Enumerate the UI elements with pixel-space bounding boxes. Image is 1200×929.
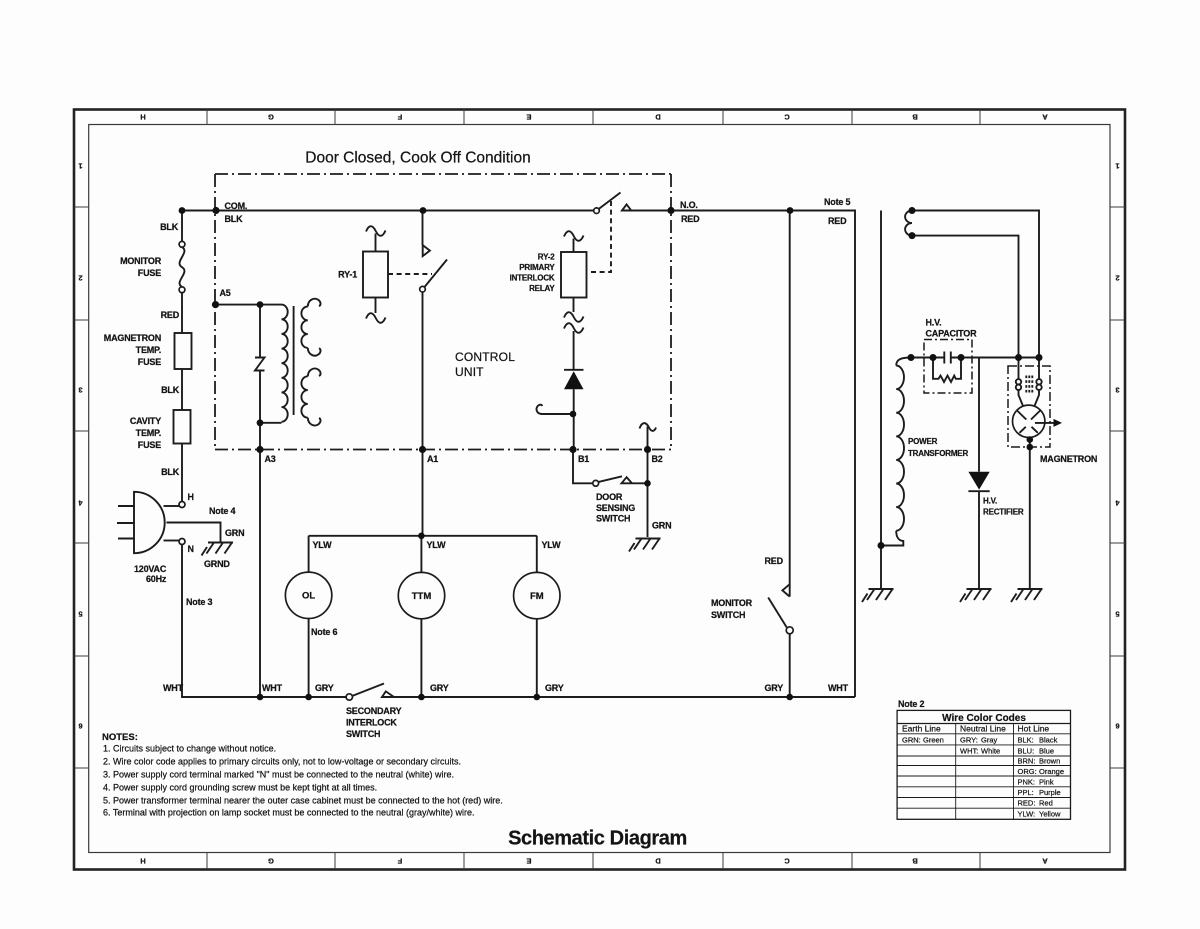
svg-text:WHT: WHT (262, 683, 283, 693)
svg-text:NOTES:: NOTES: (102, 732, 138, 743)
svg-text:Purple: Purple (1039, 788, 1061, 797)
svg-text:UNIT: UNIT (455, 365, 484, 379)
svg-text:WHT: WHT (163, 683, 184, 693)
svg-text:Brown: Brown (1039, 757, 1060, 766)
svg-text:Black: Black (1039, 736, 1058, 745)
svg-text:B2: B2 (652, 454, 663, 464)
svg-text:6. Terminal with projection on: 6. Terminal with projection on lamp sock… (103, 808, 475, 818)
svg-text:RED: RED (828, 216, 847, 226)
svg-text:2. Wire color code applies to: 2. Wire color code applies to primary ci… (103, 757, 461, 767)
svg-text:E: E (526, 113, 531, 122)
svg-text:F: F (397, 857, 402, 866)
svg-text:BLK: BLK (225, 214, 244, 224)
svg-text:H: H (188, 492, 194, 502)
svg-text:120VAC: 120VAC (134, 564, 167, 574)
svg-text:PRIMARY: PRIMARY (519, 263, 555, 272)
svg-text:3. Power supply cord terminal: 3. Power supply cord terminal marked "N"… (103, 770, 454, 780)
svg-text:Pink: Pink (1039, 778, 1054, 787)
svg-text:Door Closed, Cook Off Conditio: Door Closed, Cook Off Condition (305, 150, 530, 167)
svg-text:Hot Line: Hot Line (1018, 724, 1050, 734)
svg-text:FUSE: FUSE (138, 357, 161, 367)
svg-text:Gray: Gray (981, 736, 998, 745)
svg-text:RY-2: RY-2 (538, 253, 555, 262)
svg-text:GRN:: GRN: (902, 736, 921, 745)
svg-text:INTERLOCK: INTERLOCK (346, 718, 397, 728)
svg-text:MONITOR: MONITOR (711, 598, 753, 608)
svg-text:RELAY: RELAY (529, 284, 555, 293)
svg-text:Orange: Orange (1039, 767, 1064, 776)
svg-text:H: H (140, 113, 145, 122)
svg-text:4. Power supply cord grounding: 4. Power supply cord grounding screw mus… (103, 783, 377, 793)
svg-text:BRN:: BRN: (1018, 757, 1036, 766)
svg-text:1. Circuits subject to change: 1. Circuits subject to change without no… (103, 744, 276, 754)
svg-text:6: 6 (78, 722, 82, 731)
svg-text:3: 3 (78, 386, 82, 395)
svg-text:G: G (268, 113, 274, 122)
svg-text:YLW:: YLW: (1018, 810, 1036, 819)
svg-text:C: C (784, 113, 790, 122)
svg-text:GRY: GRY (430, 683, 449, 693)
svg-text:RED: RED (161, 310, 180, 320)
svg-text:PPL:: PPL: (1018, 788, 1034, 797)
svg-text:2: 2 (1115, 274, 1119, 283)
svg-text:2: 2 (78, 274, 82, 283)
svg-text:E: E (526, 857, 531, 866)
svg-text:GRN: GRN (225, 528, 244, 538)
svg-text:GRND: GRND (204, 559, 230, 569)
svg-text:SECONDARY: SECONDARY (346, 706, 402, 716)
svg-text:4: 4 (78, 499, 83, 508)
svg-text:SENSING: SENSING (596, 503, 635, 513)
svg-text:DOOR: DOOR (596, 492, 623, 502)
svg-text:Note 4: Note 4 (209, 506, 236, 516)
svg-text:H.V.: H.V. (983, 497, 997, 506)
svg-text:A: A (1042, 857, 1048, 866)
svg-text:FUSE: FUSE (138, 268, 161, 278)
svg-text:5: 5 (1115, 610, 1119, 619)
svg-text:Neutral Line: Neutral Line (960, 724, 1006, 734)
svg-text:Yellow: Yellow (1039, 810, 1061, 819)
svg-text:COM.: COM. (225, 201, 248, 211)
svg-text:WHT:: WHT: (960, 747, 978, 756)
svg-text:A1: A1 (427, 454, 438, 464)
svg-text:SWITCH: SWITCH (346, 729, 380, 739)
svg-text:N: N (188, 544, 194, 554)
svg-text:Note 3: Note 3 (186, 597, 213, 607)
svg-text:Green: Green (923, 736, 944, 745)
svg-text:Red: Red (1039, 799, 1053, 808)
svg-text:White: White (981, 747, 1000, 756)
svg-text:6: 6 (1115, 722, 1119, 731)
svg-text:TRANSFORMER: TRANSFORMER (908, 449, 968, 458)
svg-text:H: H (140, 857, 145, 866)
svg-text:YLW: YLW (427, 540, 447, 550)
svg-text:GRN: GRN (652, 521, 671, 531)
svg-text:BLK:: BLK: (1018, 736, 1034, 745)
svg-text:OL: OL (302, 591, 315, 602)
svg-text:4: 4 (1115, 499, 1120, 508)
svg-text:A5: A5 (220, 288, 231, 298)
svg-text:FUSE: FUSE (138, 440, 161, 450)
svg-text:TEMP.: TEMP. (136, 345, 161, 355)
svg-text:RED: RED (765, 556, 784, 566)
svg-text:B: B (912, 857, 918, 866)
svg-text:BLK: BLK (161, 467, 180, 477)
svg-text:C: C (784, 857, 790, 866)
svg-text:CONTROL: CONTROL (455, 350, 515, 364)
svg-text:3: 3 (1115, 386, 1119, 395)
svg-text:A: A (1042, 113, 1048, 122)
svg-text:D: D (655, 857, 661, 866)
svg-text:RED:: RED: (1018, 799, 1036, 808)
svg-text:POWER: POWER (908, 437, 938, 446)
svg-text:D: D (655, 113, 661, 122)
svg-text:5. Power transformer terminal: 5. Power transformer terminal nearer the… (103, 796, 503, 806)
svg-text:RED: RED (681, 214, 700, 224)
svg-text:TTM: TTM (412, 591, 432, 602)
svg-text:YLW: YLW (313, 540, 333, 550)
svg-text:G: G (268, 857, 274, 866)
svg-text:SWITCH: SWITCH (711, 610, 745, 620)
svg-text:MONITOR: MONITOR (120, 256, 162, 266)
svg-text:5: 5 (78, 610, 82, 619)
svg-text:1: 1 (78, 162, 82, 171)
svg-text:CAVITY: CAVITY (130, 416, 161, 426)
svg-text:B: B (912, 113, 918, 122)
svg-text:CAPACITOR: CAPACITOR (926, 329, 978, 339)
svg-text:GRY: GRY (315, 683, 334, 693)
svg-text:Blue: Blue (1039, 747, 1054, 756)
svg-text:60Hz: 60Hz (146, 574, 167, 584)
svg-text:GRY:: GRY: (960, 736, 978, 745)
svg-text:SWITCH: SWITCH (596, 514, 630, 524)
svg-text:MAGNETRON: MAGNETRON (1040, 454, 1097, 464)
svg-text:H.V.: H.V. (926, 318, 942, 328)
svg-text:Schematic Diagram: Schematic Diagram (508, 828, 687, 850)
svg-text:GRY: GRY (765, 683, 784, 693)
svg-text:Note 6: Note 6 (311, 627, 338, 637)
svg-text:WHT: WHT (828, 683, 849, 693)
svg-text:BLU:: BLU: (1018, 747, 1035, 756)
svg-text:FM: FM (530, 591, 544, 602)
svg-text:F: F (397, 113, 402, 122)
svg-text:Wire Color Codes: Wire Color Codes (942, 713, 1026, 724)
svg-text:1: 1 (1115, 162, 1119, 171)
svg-text:INTERLOCK: INTERLOCK (510, 274, 555, 283)
svg-text:RECTIFIER: RECTIFIER (983, 508, 1024, 517)
svg-text:N.O.: N.O. (680, 200, 698, 210)
svg-text:RY-1: RY-1 (338, 270, 357, 280)
svg-text:YLW: YLW (542, 540, 562, 550)
svg-text:BLK: BLK (160, 222, 179, 232)
svg-text:A3: A3 (265, 454, 276, 464)
svg-text:B1: B1 (578, 454, 589, 464)
svg-text:GRY: GRY (545, 683, 564, 693)
svg-text:BLK: BLK (161, 385, 180, 395)
svg-text:Note 5: Note 5 (824, 197, 851, 207)
svg-text:TEMP.: TEMP. (136, 428, 161, 438)
svg-text:Note 2: Note 2 (898, 699, 925, 709)
svg-text:MAGNETRON: MAGNETRON (104, 333, 161, 343)
svg-text:PNK:: PNK: (1018, 778, 1036, 787)
svg-text:ORG:: ORG: (1018, 767, 1037, 776)
svg-text:Earth Line: Earth Line (902, 724, 941, 734)
